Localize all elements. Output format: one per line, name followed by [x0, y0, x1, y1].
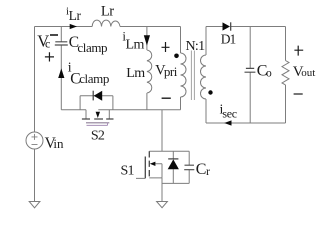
diode D1	[230, 22, 232, 30]
svg-text:Lm: Lm	[126, 37, 145, 52]
label Cclamp	[69, 34, 107, 55]
current arrow iLm	[144, 35, 150, 45]
svg-text:S2: S2	[91, 129, 105, 144]
svg-text:S1: S1	[121, 164, 135, 179]
ground (left)	[29, 202, 40, 208]
svg-text:r: r	[206, 164, 210, 178]
wire output right rail	[285, 27, 287, 124]
svg-text:pri: pri	[164, 64, 178, 79]
transformer core	[191, 51, 194, 101]
transistor S1	[136, 110, 189, 179]
wire secondary top	[206, 26, 286, 28]
polarity plus Vout	[294, 46, 303, 56]
polarity minus Vc	[50, 34, 58, 36]
capacitor Cclamp	[60, 27, 62, 110]
node dot secondary	[208, 90, 212, 94]
transistor S2	[82, 110, 114, 126]
label Vpri	[155, 63, 178, 79]
polarity plus Vpri	[162, 42, 170, 52]
svg-text:Lr: Lr	[69, 8, 82, 23]
wire left rail	[34, 27, 36, 133]
svg-text:out: out	[301, 67, 315, 79]
svg-text:N:1: N:1	[186, 39, 206, 54]
polarity plus Vc	[45, 52, 54, 61]
label Cr	[196, 161, 210, 178]
label Vc	[37, 32, 50, 51]
wire Vin to ground	[34, 149, 36, 202]
inductor Lr	[92, 20, 120, 26]
label iLr	[66, 6, 82, 23]
current arrow isec	[224, 120, 231, 125]
svg-text:clamp: clamp	[77, 40, 107, 55]
label iLm	[122, 28, 144, 52]
label Vin	[45, 135, 64, 152]
svg-text:in: in	[53, 136, 64, 151]
ground (S1)	[157, 202, 168, 208]
source Vin	[26, 132, 43, 149]
wire S1 source to ground	[161, 178, 163, 202]
svg-text:Lm: Lm	[126, 66, 145, 81]
transformer T1 secondary	[201, 27, 206, 124]
svg-text:Lr: Lr	[101, 4, 114, 20]
inductor Lm	[147, 27, 152, 110]
resistor Rload Vout	[282, 61, 289, 85]
current arrow iLr	[70, 24, 77, 29]
svg-text:sec: sec	[222, 106, 236, 120]
diode (body of S1)	[172, 151, 174, 183]
transformer T1 primary	[181, 27, 187, 110]
label iCclamp	[68, 61, 109, 88]
polarity minus Vpri	[162, 97, 171, 99]
polarity minus Vout	[294, 93, 303, 95]
node dot primary	[174, 54, 179, 59]
svg-text:o: o	[266, 68, 272, 80]
svg-text:clamp: clamp	[79, 71, 109, 86]
label Vout	[293, 64, 316, 80]
wire top rail	[35, 26, 181, 28]
diode (across S2)	[80, 96, 113, 110]
svg-text:c: c	[45, 37, 50, 51]
wire secondary bottom	[206, 122, 286, 124]
svg-text:C: C	[196, 161, 207, 178]
wire S1 bottom rail	[162, 182, 190, 184]
svg-text:D1: D1	[221, 31, 236, 46]
label isec	[220, 102, 237, 120]
wire bottom rail	[61, 109, 180, 111]
current arrow iCclamp	[58, 68, 64, 78]
capacitor Cr	[188, 151, 190, 183]
capacitor Co	[249, 27, 251, 124]
label Co	[257, 62, 272, 79]
